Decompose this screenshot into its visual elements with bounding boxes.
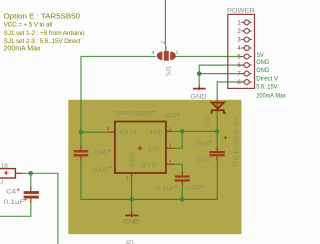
marker cross value D2 <box>224 136 227 139</box>
svg-text:C30: C30 <box>93 149 107 156</box>
junction GND rail <box>129 197 134 202</box>
pin stub EN <box>166 147 174 149</box>
capacitor C30 <box>74 146 89 161</box>
svg-text:D2: D2 <box>205 116 212 125</box>
svg-text:RB160XA-30: RB160XA-30 <box>233 117 240 167</box>
wire IN node <box>173 130 217 132</box>
junction GND net <box>197 71 202 76</box>
svg-text:IC6: IC6 <box>165 113 176 120</box>
svg-text:GND: GND <box>256 67 269 74</box>
wire Direct net to POWER pin8 <box>217 82 243 100</box>
wire 5V rail from corner to SJ1 pin3 <box>81 57 156 100</box>
junction node OUT/C30 <box>79 130 84 135</box>
diode D2 (schottky, pointing down) <box>211 103 226 113</box>
svg-text:GND: GND <box>256 59 269 66</box>
svg-text:C4: C4 <box>6 189 17 196</box>
marker crosses C30 <box>108 149 112 169</box>
svg-text:U: U <box>0 178 3 185</box>
wire GND net to POWER pin6 <box>199 65 243 85</box>
svg-text:5V: 5V <box>257 52 264 59</box>
svg-text:0.1uF: 0.1uF <box>4 199 25 206</box>
svg-text:EN: EN <box>148 146 159 153</box>
svg-text:18: 18 <box>1 163 9 170</box>
pin 4 <box>241 47 243 49</box>
wire C33 to rail <box>181 186 183 199</box>
pin stub IN <box>166 130 173 132</box>
marker crosses C33 <box>174 185 203 188</box>
wire SJ1 pin1 to POWER pin5 <box>175 56 243 58</box>
connector X1 box <box>228 14 255 88</box>
svg-text:GND: GND <box>123 218 139 225</box>
pin 3 <box>241 39 243 41</box>
pin stub BYP <box>166 163 174 165</box>
wire C30 vertical <box>80 132 82 146</box>
svg-text:OUT: OUT <box>120 129 138 136</box>
wire C30 to ground rail <box>81 161 217 200</box>
wire C4 to left edge <box>0 203 31 216</box>
pin 5 <box>241 56 243 58</box>
svg-text:200mA Max: 200mA Max <box>4 45 41 53</box>
pin 8 <box>241 81 243 83</box>
svg-text:GND: GND <box>129 151 136 166</box>
ground symbol lower <box>125 199 138 217</box>
svg-text:BYP: BYP <box>141 163 157 170</box>
svg-text:GND: GND <box>190 93 207 100</box>
origin cross IC6 <box>138 146 142 150</box>
wire OUT pin <box>81 131 108 133</box>
junction C4 node <box>29 171 34 176</box>
wire node down to C4 <box>30 173 32 186</box>
pin stub 18 <box>15 172 22 174</box>
svg-text:SJ1 set 1-2 : +5 from Arduino: SJ1 set 1-2 : +5 from Arduino <box>4 30 85 37</box>
marker crosses C31 <box>209 140 212 143</box>
svg-text:Option E : TAR5SB50: Option E : TAR5SB50 <box>4 12 81 20</box>
svg-text:200mA Max: 200mA Max <box>256 92 286 99</box>
svg-text:0.1uF: 0.1uF <box>156 185 175 192</box>
junction C33 rail <box>180 197 185 202</box>
svg-text:POWER: POWER <box>227 7 255 14</box>
wire GND net to POWER pin7 <box>199 73 243 75</box>
svg-text:4D: 4D <box>126 240 135 244</box>
capacitor C4 <box>24 187 39 204</box>
pin stub GND of IC <box>131 173 133 177</box>
svg-text:1: 1 <box>176 50 179 56</box>
pin 2 <box>241 30 243 32</box>
pin 1 <box>241 21 243 23</box>
pin 7 <box>241 73 243 75</box>
wire EN to IN <box>174 131 182 148</box>
svg-text:TAR5SB50: TAR5SB50 <box>115 110 154 117</box>
capacitor C33 <box>175 171 190 186</box>
junction diode/C31 <box>215 129 220 134</box>
note text block <box>4 12 85 52</box>
SJ1 pin2 stub <box>165 46 167 51</box>
pins 1-8 of connector <box>241 20 252 85</box>
svg-text:C33: C33 <box>186 185 200 192</box>
wire SJ1 pin2 up to top edge <box>164 0 166 46</box>
svg-text:SJ1: SJ1 <box>165 66 172 76</box>
wire 18 to node <box>23 172 31 174</box>
wire node to right edge vertical <box>31 173 58 244</box>
svg-text:5.6..15V: 5.6..15V <box>256 84 278 91</box>
net labels right of connector <box>256 52 286 99</box>
svg-text:10uF: 10uF <box>92 167 109 174</box>
wire diode anode-cathode through to IN node <box>216 102 218 147</box>
marker cross TAR5SB50 <box>152 110 180 116</box>
pin numbers 1-8 <box>237 20 241 86</box>
svg-text:3: 3 <box>152 50 155 56</box>
capacitor C31 <box>209 147 225 161</box>
IC6 regulator box <box>115 122 166 174</box>
svg-text:C31: C31 <box>197 157 211 164</box>
svg-text:VCC = + 5 V to all: VCC = + 5 V to all <box>4 21 53 28</box>
solder jumper SJ1 <box>157 51 176 61</box>
marker crosses C4 <box>17 188 27 201</box>
svg-text:Direct V: Direct V <box>256 75 278 82</box>
svg-text:2: 2 <box>160 41 165 44</box>
wire BYP to C33 <box>174 164 182 171</box>
ground symbol upper <box>193 85 206 90</box>
junction EN tie <box>180 129 185 134</box>
pin 6 <box>241 64 243 66</box>
pin stub OUT <box>108 131 115 133</box>
svg-text:IN: IN <box>150 129 160 136</box>
wire GND pin to rail <box>131 177 133 199</box>
off-page part pin 18 box <box>0 169 15 178</box>
highlight region (olive) <box>68 100 241 234</box>
svg-text:10uF: 10uF <box>194 141 210 148</box>
